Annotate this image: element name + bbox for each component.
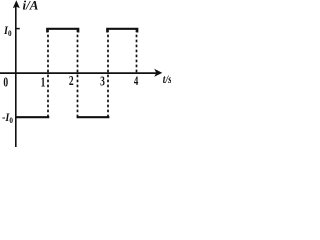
svg-text:1: 1 xyxy=(41,73,46,89)
pulse top t=3 to t=4 xyxy=(107,29,137,33)
svg-text:4: 4 xyxy=(134,74,139,88)
label -I0 xyxy=(2,111,13,125)
svg-text:I0: I0 xyxy=(3,24,12,38)
wave segment -I0 from t=0 to t=1 xyxy=(16,116,50,118)
y-axis xyxy=(13,0,20,147)
label 3 xyxy=(100,73,105,89)
label 1 xyxy=(41,73,46,89)
label t/s xyxy=(163,73,172,86)
dashed line t=3 xyxy=(107,30,109,117)
svg-text:-I0: -I0 xyxy=(2,111,13,125)
tick I0 xyxy=(16,28,20,30)
svg-text:3: 3 xyxy=(100,73,105,89)
dashed line t=1 xyxy=(47,30,49,117)
dashed line t=4 xyxy=(136,30,138,73)
label 2 xyxy=(69,72,74,88)
x-axis xyxy=(0,69,162,77)
svg-text:0: 0 xyxy=(3,74,8,90)
label 4 xyxy=(134,74,139,88)
label I0 xyxy=(3,24,12,38)
wave segment -I0 from t=2 to t=3 xyxy=(77,116,110,118)
svg-text:2: 2 xyxy=(69,72,74,88)
dashed line t=2 xyxy=(77,30,79,117)
svg-text:t/s: t/s xyxy=(163,73,171,86)
pulse top t=1 to t=2 xyxy=(47,29,78,33)
svg-text:i/A: i/A xyxy=(23,0,39,13)
label 0 xyxy=(3,74,8,90)
